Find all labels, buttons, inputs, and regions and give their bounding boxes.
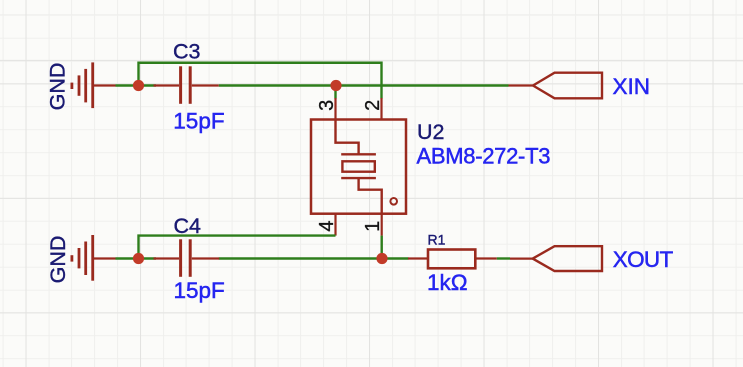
crystal element inside U2 [336, 120, 382, 214]
capacitor C4 [154, 239, 220, 276]
wire GND to junction (bottom row) [116, 257, 140, 259]
svg-text:XIN: XIN [613, 74, 651, 99]
junction node (C3 / pin3 / XIN, top) [330, 80, 341, 91]
ground GND (bottom) [72, 235, 116, 281]
wire C4 right to junction at pin 1 [219, 257, 382, 259]
port XOUT [510, 258, 533, 260]
svg-text:XOUT: XOUT [613, 247, 674, 272]
pin 3 of U2 [334, 98, 336, 120]
svg-text:15pF: 15pF [174, 278, 225, 303]
svg-text:C4: C4 [174, 214, 202, 238]
wire junction to C4 left lead [138, 257, 157, 259]
wire R1 to XOUT port [497, 257, 510, 259]
svg-text:ABM8-272-T3: ABM8-272-T3 [417, 143, 551, 168]
wire junction to XIN port [336, 84, 509, 86]
wire junction to R1 [382, 257, 409, 259]
svg-text:GND: GND [46, 236, 70, 284]
pin 2 of U2 [380, 98, 382, 120]
svg-text:1kΩ: 1kΩ [427, 270, 468, 295]
wire pin3 junction down to pin 3 [334, 86, 336, 99]
ground GND (top) [72, 62, 116, 108]
svg-text:U2: U2 [417, 120, 444, 144]
resistor R1 [408, 250, 497, 269]
svg-text:2: 2 [362, 100, 384, 111]
capacitor C3 [154, 66, 219, 104]
junction node (GND / C4 / loop, bottom) [133, 253, 144, 264]
wire GND to junction (top row) [116, 84, 140, 86]
wire bottom loop: junction up, across to pin 4 [139, 236, 336, 259]
pin 1 of U2 [381, 214, 383, 236]
port XIN [509, 84, 534, 86]
junction node (GND / C3 / loop, top) [133, 80, 144, 91]
wire C3 right to junction at pin 3 [219, 84, 336, 86]
svg-text:1: 1 [362, 221, 384, 232]
svg-text:4: 4 [316, 220, 338, 231]
svg-text:C3: C3 [173, 40, 201, 64]
svg-text:15pF: 15pF [173, 109, 224, 134]
wire top loop: junction up, across, down to pin 2 [139, 63, 382, 99]
pin 1 indicator dot [390, 198, 397, 205]
svg-text:3: 3 [316, 100, 338, 111]
wire junction to C3 left lead [138, 84, 157, 86]
pin 4 of U2 [334, 214, 336, 236]
junction node (C4 / pin1 / R1, bottom) [376, 253, 387, 264]
wire pin 1 down to junction [381, 236, 383, 259]
crystal U2 body [311, 120, 406, 214]
svg-text:GND: GND [46, 63, 70, 111]
svg-text:R1: R1 [428, 231, 446, 247]
